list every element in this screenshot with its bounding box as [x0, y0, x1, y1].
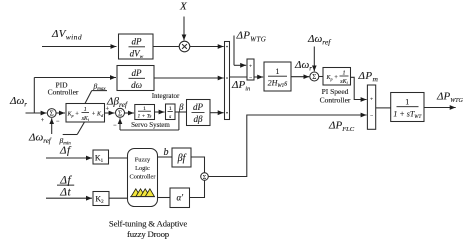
svg-text:−: − — [113, 123, 117, 129]
svg-text:dP: dP — [132, 68, 143, 78]
svg-text:1: 1 — [169, 106, 172, 112]
svg-text:Δωref: Δωref — [28, 132, 52, 146]
svg-text:K1: K1 — [95, 154, 104, 165]
svg-text:Δωref: Δωref — [307, 33, 331, 47]
svg-text:Logic: Logic — [135, 165, 150, 172]
svg-text:Δt: Δt — [59, 186, 71, 198]
svg-text:1: 1 — [343, 71, 346, 77]
svg-text:Σ: Σ — [312, 73, 316, 81]
svg-text:sKi: sKi — [82, 116, 89, 122]
svg-text:ΔPFLC: ΔPFLC — [328, 120, 355, 134]
svg-text:−: − — [249, 75, 252, 81]
svg-text:ΔPWTG: ΔPWTG — [236, 30, 267, 44]
svg-text:dP: dP — [193, 102, 204, 112]
svg-text:Self-tuning & Adaptive: Self-tuning & Adaptive — [109, 219, 187, 229]
svg-text:+: + — [370, 97, 373, 103]
svg-text:1 + sTWT: 1 + sTWT — [393, 109, 422, 120]
svg-text:ΔPWTG: ΔPWTG — [436, 91, 464, 105]
svg-text:1 + Ts: 1 + Ts — [138, 114, 152, 120]
svg-text:βmax: βmax — [93, 82, 107, 93]
svg-text:1: 1 — [143, 106, 146, 112]
svg-text:dω: dω — [131, 80, 142, 90]
svg-text:1: 1 — [405, 97, 409, 106]
svg-text:Controller: Controller — [320, 95, 351, 104]
svg-text:Controller: Controller — [130, 173, 157, 180]
svg-text:Kp +: Kp + — [67, 112, 80, 119]
svg-text:+ Kd: + Kd — [92, 112, 105, 119]
svg-text:−: − — [370, 114, 373, 120]
svg-text:Δf: Δf — [59, 174, 72, 186]
svg-text:Kp +: Kp + — [326, 75, 339, 82]
svg-text:Δωr: Δωr — [294, 59, 312, 73]
svg-text:Fuzzy: Fuzzy — [135, 157, 151, 164]
svg-text:+: + — [41, 118, 45, 124]
svg-text:2HWTs: 2HWTs — [268, 79, 288, 90]
svg-text:dVw: dVw — [130, 49, 144, 61]
svg-text:β: β — [178, 102, 184, 112]
svg-text:βmin: βmin — [59, 136, 72, 147]
svg-text:Δωr: Δωr — [9, 95, 27, 109]
svg-text:Σ: Σ — [203, 175, 207, 181]
svg-text:Integrator: Integrator — [152, 92, 180, 100]
svg-text:K2: K2 — [95, 195, 104, 206]
svg-text:1: 1 — [276, 67, 280, 76]
svg-text:βf: βf — [177, 153, 187, 164]
svg-text:dP: dP — [132, 37, 143, 47]
svg-text:−: − — [56, 119, 60, 125]
svg-text:s: s — [169, 114, 171, 120]
svg-text:sKi: sKi — [340, 79, 347, 85]
svg-text:ΔPin: ΔPin — [231, 79, 250, 93]
svg-text:+: + — [249, 63, 252, 69]
svg-text:ΔVwind: ΔVwind — [51, 28, 82, 42]
svg-text:Σ: Σ — [118, 110, 122, 118]
svg-text:Δβref: Δβref — [106, 96, 128, 110]
svg-text:ΔPm: ΔPm — [358, 70, 379, 84]
svg-text:X: X — [179, 1, 188, 13]
svg-text:Controller: Controller — [48, 88, 79, 97]
svg-text:1: 1 — [84, 107, 87, 113]
svg-text:Σ: Σ — [50, 110, 54, 118]
svg-text:dβ: dβ — [194, 114, 204, 124]
svg-text:fuzzy Droop: fuzzy Droop — [127, 229, 170, 239]
svg-text:b: b — [164, 147, 169, 158]
svg-text:α′: α′ — [176, 193, 184, 203]
svg-text:Servo System: Servo System — [131, 121, 170, 129]
